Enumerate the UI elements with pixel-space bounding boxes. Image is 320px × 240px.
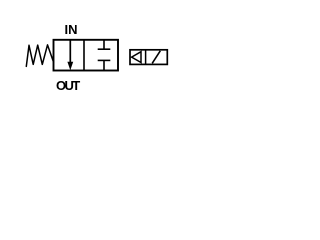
- spring (return spring, left): [26, 45, 53, 67]
- svg-text:IN: IN: [65, 22, 78, 37]
- valve body outline: [54, 40, 119, 71]
- solenoid divider: [145, 50, 147, 65]
- solenoid triangle (pilot): [132, 52, 141, 63]
- blocked port T bottom (closed position): [98, 59, 111, 61]
- blocked port T top (closed position): [103, 40, 105, 49]
- position divider: [83, 40, 85, 71]
- flow arrow head: [67, 62, 73, 70]
- solenoid coil diagonal: [152, 51, 160, 64]
- solenoid actuator box: [130, 50, 167, 65]
- svg-text:OUT: OUT: [56, 78, 80, 93]
- flow arrow shaft (open position): [69, 40, 71, 64]
- valve schematic: [0, 0, 188, 106]
